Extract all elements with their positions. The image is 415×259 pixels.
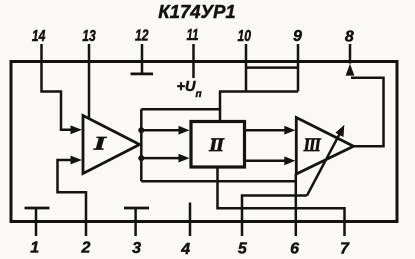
svg-text:13: 13: [82, 28, 96, 45]
svg-text:I: I: [92, 133, 106, 154]
junction dot amp I out lower: [138, 155, 144, 161]
pin 8 lead: [349, 44, 352, 64]
wire pin 13 to amp I top: [88, 62, 91, 119]
amp I output vertical node: [140, 109, 143, 181]
svg-text:8: 8: [345, 29, 354, 46]
wire node 9/10 to block II top: [219, 92, 222, 121]
svg-text:3: 3: [132, 240, 141, 257]
wire node 9/10 horizontal: [219, 90, 298, 93]
pin 1 internal stub: [35, 209, 38, 222]
amp I triangle: [83, 116, 140, 174]
arrowhead AGC diagonal tip: [335, 125, 344, 137]
svg-text:12: 12: [135, 28, 149, 45]
arrowhead output to pin 8: [346, 64, 355, 76]
pin 6 lead: [295, 222, 298, 237]
pin 13 lead: [88, 44, 91, 62]
pin 2 lead: [85, 222, 88, 237]
svg-text:III: III: [303, 135, 321, 156]
pin 1 lead: [35, 222, 38, 237]
wire pin 10 down: [245, 62, 248, 92]
AGC diagonal arrow line through amp III: [307, 133, 340, 196]
wire pin 5 AGC to diagonal: [242, 196, 307, 222]
arrowhead block II upper input: [179, 126, 190, 135]
svg-text:14: 14: [32, 28, 46, 45]
svg-text:4: 4: [180, 241, 190, 258]
wire pin 9 down: [297, 62, 300, 92]
svg-text:7: 7: [340, 241, 350, 258]
pin 4 internal stub: [189, 203, 192, 222]
wire amp I output to 9/10 net: [141, 108, 221, 111]
pin 14 lead: [40, 44, 43, 62]
wire pin 14 to amp I upper input: [42, 62, 72, 130]
wire amp I out to pin 6 (long bottom wire): [141, 180, 295, 183]
wire pin 2 to amp I lower input: [58, 160, 87, 222]
arrowhead block II lower input: [179, 154, 190, 163]
pin 1 terminal bar: [25, 207, 50, 210]
wire amp I out to block II lower input: [141, 157, 180, 160]
wire pin 6 to amp III bottom: [295, 174, 298, 222]
junction dot amp I out upper: [138, 127, 144, 133]
svg-text:К174УР1: К174УР1: [158, 1, 235, 22]
pin 9 lead: [297, 44, 300, 62]
wire block II to amp III lower input: [245, 160, 286, 163]
pin 11 lead: [192, 44, 195, 62]
svg-text:2: 2: [80, 240, 90, 257]
svg-text:6: 6: [290, 241, 299, 258]
amp III triangle: [296, 118, 353, 175]
IC body К174УР1: [11, 62, 397, 222]
svg-text:10: 10: [237, 28, 251, 45]
pin 4 lead: [189, 222, 192, 237]
svg-text:+Uп: +Uп: [177, 79, 202, 100]
pin 5 lead: [241, 222, 244, 237]
wire block II bottom to pin 7: [218, 167, 345, 222]
wire pin 9 to pin 10 tie: [246, 66, 298, 69]
pin 12 lead: [141, 44, 144, 62]
pin 12 terminal bar: [131, 73, 154, 76]
pin 10 lead: [245, 44, 248, 62]
pin 12 internal stub: [141, 62, 144, 73]
arrowhead amp I lower input: [71, 156, 83, 165]
pin 3 internal stub: [134, 209, 137, 222]
svg-text:9: 9: [293, 28, 302, 45]
wire amp I out to block II upper input: [141, 129, 180, 132]
arrowhead amp III upper input: [284, 126, 295, 135]
svg-text:II: II: [208, 135, 224, 156]
svg-text:11: 11: [187, 27, 199, 44]
wire amp III output to pin 8: [351, 78, 384, 146]
pin 7 lead: [343, 222, 346, 237]
block II rectangle: [191, 122, 245, 168]
arrowhead amp III lower input: [284, 156, 295, 165]
pin 3 terminal bar: [124, 207, 149, 210]
pin 3 lead: [134, 222, 137, 237]
arrowhead amp I upper input: [71, 125, 83, 134]
wire block II to amp III upper input: [245, 129, 286, 132]
svg-text:5: 5: [238, 241, 248, 258]
svg-text:1: 1: [30, 240, 39, 257]
pin 11 internal stub (+Un supply): [192, 62, 195, 79]
